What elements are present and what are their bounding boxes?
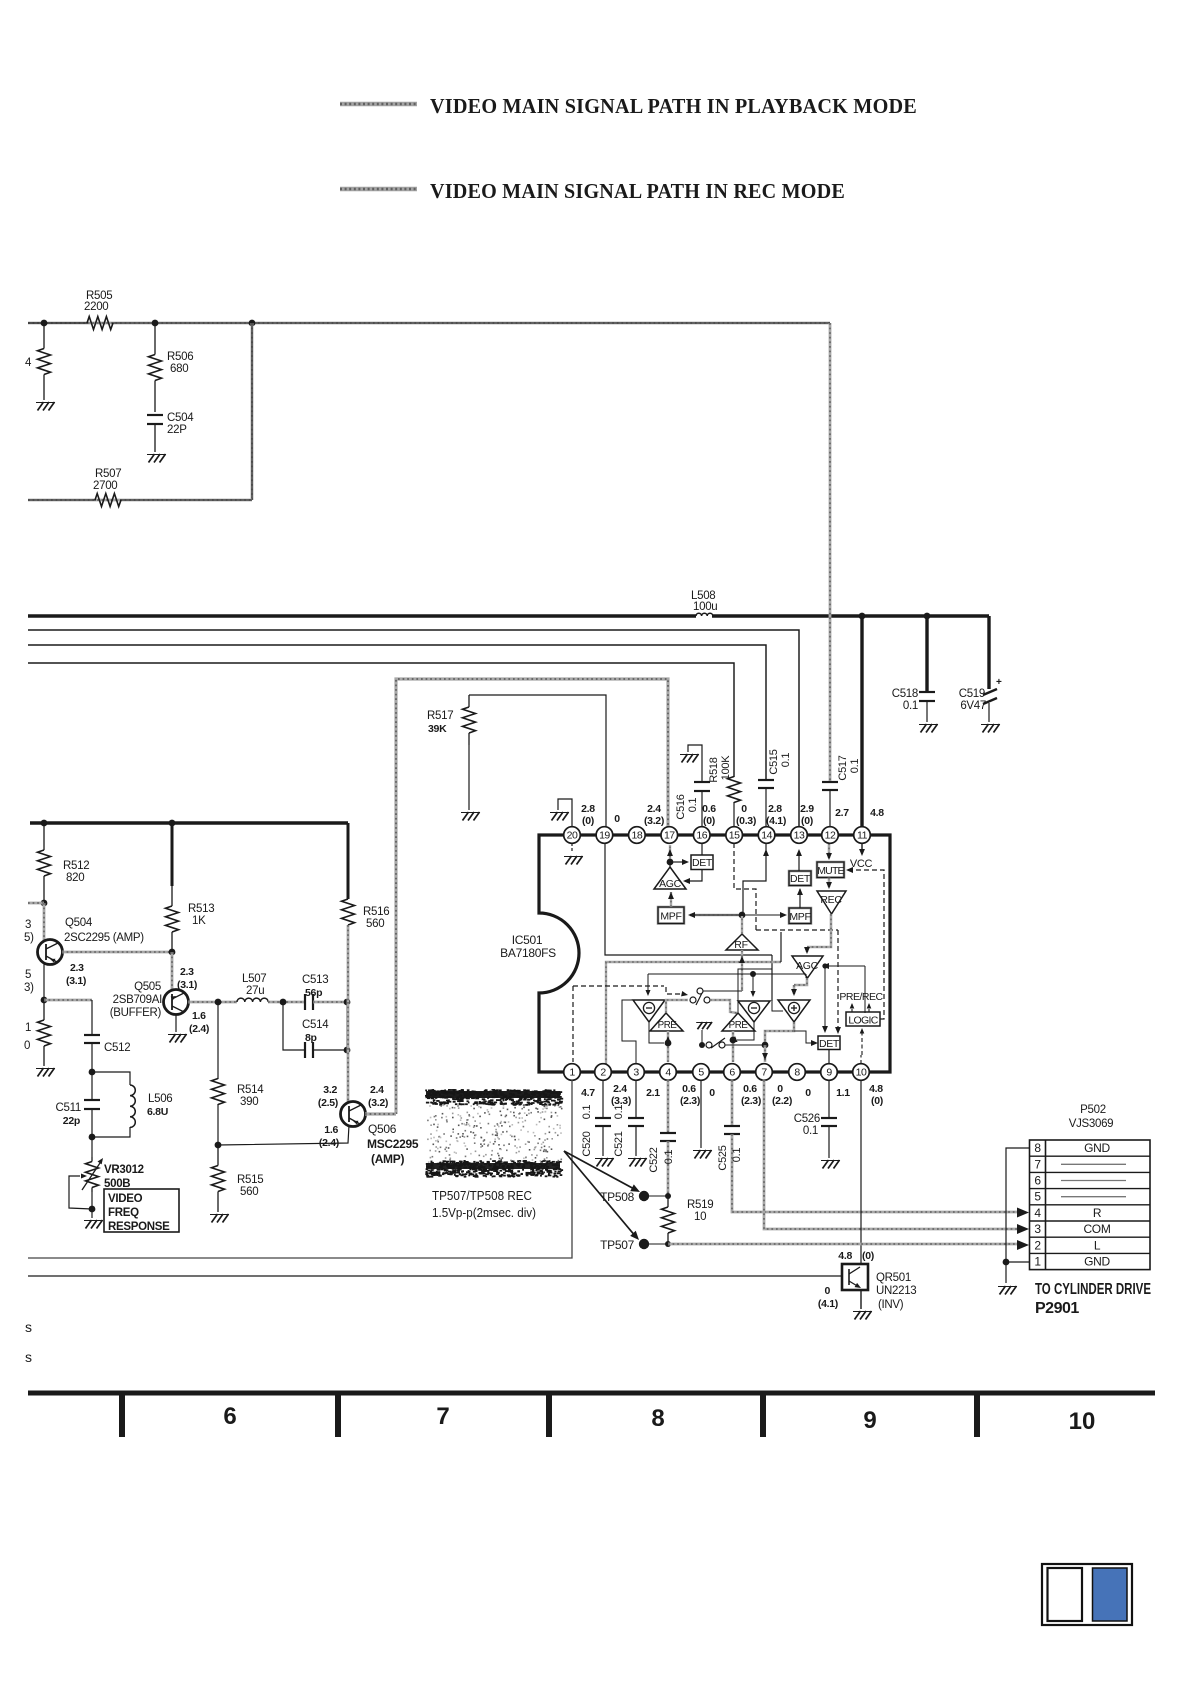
node dot Q504 base <box>41 900 48 907</box>
svg-text:C517: C517 <box>837 755 849 780</box>
wire adder out to pin7 and DET3 <box>765 1022 794 1045</box>
wire Q506 collector to REC path gray <box>365 1112 396 1115</box>
wire Q504 collector to R513 gray <box>62 951 172 954</box>
svg-text:REC: REC <box>820 894 842 906</box>
wire pin4 to PRE1 <box>667 1031 670 1062</box>
wire R514 to junction <box>217 1104 219 1145</box>
wire L507 to C513 gray <box>268 1001 305 1004</box>
node dot VR bottom <box>89 1206 96 1213</box>
svg-text:2700: 2700 <box>93 480 117 492</box>
svg-text:14: 14 <box>761 830 772 842</box>
wire gray drop x830 <box>829 323 832 782</box>
ground C521 <box>630 1158 636 1167</box>
summing amp plus <box>778 1000 810 1022</box>
svg-text:0.1: 0.1 <box>731 1148 743 1163</box>
svg-text:L507: L507 <box>242 973 266 985</box>
svg-text:(3.1): (3.1) <box>66 975 86 987</box>
svg-text:8: 8 <box>1034 1141 1041 1155</box>
svg-text:0: 0 <box>805 1087 811 1099</box>
svg-text:RF: RF <box>734 939 747 951</box>
svg-text:0.6: 0.6 <box>743 1083 757 1095</box>
svg-text:0.1: 0.1 <box>687 798 699 813</box>
svg-text:0.6: 0.6 <box>702 803 716 815</box>
svg-text:R507: R507 <box>95 468 121 480</box>
capacitor C515 <box>758 779 774 781</box>
svg-text:0: 0 <box>614 813 620 825</box>
ground C518 <box>921 724 927 733</box>
block LOGIC <box>846 1012 880 1026</box>
svg-text:2.1: 2.1 <box>646 1087 660 1099</box>
svg-text:L506: L506 <box>148 1093 172 1105</box>
box VIDEO FREQ RESPONSE <box>104 1189 179 1232</box>
node dot RF out <box>739 912 746 919</box>
wire REC path gray from Q506 to pin17 <box>396 679 668 1114</box>
svg-text:4: 4 <box>25 357 32 369</box>
svg-text:IC501: IC501 <box>512 933 543 947</box>
svg-text:0.1: 0.1 <box>780 753 792 768</box>
wire emitter to C512 gray <box>44 999 92 1002</box>
svg-text:TP507: TP507 <box>600 1238 634 1252</box>
node dot L507 left <box>215 999 222 1006</box>
ground C520 <box>597 1158 603 1167</box>
svg-text:9: 9 <box>863 1407 876 1434</box>
dashed VCC to MUTE and logic rail <box>848 870 884 1019</box>
wire bus y663 to R518 <box>28 663 734 777</box>
wire VCC drop to pin11 <box>860 616 863 827</box>
dashed arrows logic to PRE/REC <box>851 1004 853 1012</box>
svg-text:TO CYLINDER DRIVE: TO CYLINDER DRIVE <box>1035 1281 1151 1298</box>
wire MUTE to REC <box>828 878 831 888</box>
dashed pin15 path <box>734 843 756 930</box>
amplifier PRE2 <box>722 1013 755 1031</box>
ground P502 <box>1000 1286 1006 1295</box>
capacitor C504 <box>147 414 163 416</box>
block DET2 <box>789 871 811 886</box>
svg-text:+: + <box>996 677 1002 688</box>
wire RF input <box>741 950 743 989</box>
svg-text:0.6: 0.6 <box>682 1083 696 1095</box>
svg-text:(2.5): (2.5) <box>318 1097 338 1109</box>
svg-text:P2901: P2901 <box>1035 1300 1079 1317</box>
svg-text:18: 18 <box>632 830 643 842</box>
svg-text:GND: GND <box>1084 1255 1110 1269</box>
wire base drop gray <box>43 903 46 941</box>
svg-text:3: 3 <box>633 1067 639 1079</box>
svg-text:C521: C521 <box>613 1131 625 1156</box>
node dot R514 bottom <box>215 1142 222 1149</box>
svg-text:RESPONSE: RESPONSE <box>108 1221 170 1233</box>
svg-text:C516: C516 <box>675 794 687 819</box>
wire pin14 internal <box>743 852 766 913</box>
svg-text:6: 6 <box>223 1403 236 1430</box>
svg-text:R515: R515 <box>237 1174 263 1186</box>
wire DET2 to pin13 <box>798 852 800 871</box>
wire main bus thick y616 <box>28 614 696 617</box>
node dot C512 bottom <box>89 1069 96 1076</box>
capacitor C511 <box>91 1072 93 1100</box>
svg-text:1K: 1K <box>192 915 206 927</box>
wire pin5 ground <box>700 1080 702 1148</box>
svg-text:VIDEO: VIDEO <box>108 1193 143 1205</box>
block MPF1 <box>658 907 684 924</box>
variable resistor VR3012 <box>91 1137 93 1157</box>
svg-text:6: 6 <box>729 1067 735 1079</box>
svg-text:VIDEO MAIN SIGNAL PATH IN PLAY: VIDEO MAIN SIGNAL PATH IN PLAYBACK MODE <box>430 94 917 118</box>
svg-text:1.6: 1.6 <box>324 1124 338 1136</box>
svg-text:680: 680 <box>170 363 188 375</box>
svg-text:(2.2): (2.2) <box>772 1095 792 1107</box>
wire thick bus y823 <box>30 821 348 824</box>
svg-text:1.5Vp-p(2msec. div): 1.5Vp-p(2msec. div) <box>432 1206 536 1220</box>
svg-text:13: 13 <box>794 830 805 842</box>
svg-text:3.2: 3.2 <box>323 1084 337 1096</box>
svg-text:DET: DET <box>819 1038 840 1050</box>
wire Q504 emitter down <box>43 963 45 1000</box>
svg-text:BA7180FS: BA7180FS <box>500 946 556 960</box>
op-amp IC501 body outline <box>539 835 890 1072</box>
resistor R506 <box>154 323 156 355</box>
amplifier AGC1 <box>654 867 686 889</box>
capacitor C526 on pin9 <box>828 1080 830 1118</box>
inductor L508 <box>696 613 713 616</box>
svg-text:2.3: 2.3 <box>70 962 84 974</box>
svg-text:4.8: 4.8 <box>869 1083 883 1095</box>
ground C519 <box>983 724 989 733</box>
capacitor C520 <box>602 1080 604 1118</box>
wire Q506 emitter to R514 node <box>218 1125 349 1145</box>
node dot minus2 feed <box>750 971 756 977</box>
svg-text:(3.2): (3.2) <box>644 815 664 827</box>
waveform photo REC <box>426 1091 560 1098</box>
svg-text:15: 15 <box>729 830 740 842</box>
svg-text:(0): (0) <box>801 815 813 827</box>
svg-text:(0): (0) <box>862 1250 874 1262</box>
svg-text:1: 1 <box>569 1067 575 1079</box>
svg-text:39K: 39K <box>428 723 447 735</box>
ground R-partial <box>38 1068 44 1077</box>
svg-text:7: 7 <box>1034 1157 1041 1171</box>
svg-text:0.1: 0.1 <box>903 700 918 712</box>
svg-text:DET: DET <box>692 857 713 869</box>
svg-text:(0.3): (0.3) <box>736 815 756 827</box>
svg-text:LOGIC: LOGIC <box>848 1015 878 1027</box>
svg-text:16: 16 <box>696 830 707 842</box>
wire PRE1 out to switch <box>666 1000 688 1013</box>
wire PRE2 out riser to adder <box>738 969 783 1013</box>
svg-text:UN2213: UN2213 <box>876 1285 916 1297</box>
capacitor C512 <box>84 1034 100 1036</box>
wire pin17 to AGC1 <box>669 845 671 862</box>
wiper link <box>81 1173 87 1178</box>
wire pin6 to PRE2 <box>732 1031 735 1062</box>
svg-text:0.1: 0.1 <box>581 1105 593 1120</box>
wire REC to AGC2 <box>807 914 831 947</box>
svg-text:8p: 8p <box>305 1032 317 1044</box>
wire top signal line y323 <box>28 322 830 325</box>
capacitor C521 <box>635 1080 637 1118</box>
svg-text:Q506: Q506 <box>368 1122 397 1136</box>
svg-text:MPF: MPF <box>660 911 681 923</box>
svg-text:2.4: 2.4 <box>647 803 661 815</box>
svg-text:0.1: 0.1 <box>803 1125 818 1137</box>
svg-text:2.3: 2.3 <box>180 966 194 978</box>
svg-text:(INV): (INV) <box>878 1299 904 1311</box>
dashed drop to DET3 <box>837 930 839 1030</box>
wire vertical x252 <box>251 323 254 500</box>
svg-text:6V47: 6V47 <box>960 700 986 712</box>
amplifier PRE1 <box>650 1013 683 1031</box>
wire Q505 out gray <box>188 1001 237 1004</box>
resistor R-left partial <box>43 323 45 349</box>
svg-text:2SB709AI: 2SB709AI <box>113 994 162 1006</box>
ground R515 <box>212 1214 218 1223</box>
block DET3 <box>818 1036 840 1050</box>
svg-text:s: s <box>25 1319 32 1335</box>
resistor R519 <box>667 1196 669 1207</box>
svg-text:AGC: AGC <box>659 878 682 890</box>
svg-text:17: 17 <box>664 830 675 842</box>
svg-text:390: 390 <box>240 1096 258 1108</box>
node dot junction x252 <box>249 320 256 327</box>
svg-text:R506: R506 <box>167 351 193 363</box>
ground C504 <box>149 454 155 463</box>
block DET1 <box>670 861 684 863</box>
node dot R506 top <box>152 320 159 327</box>
svg-text:0.1: 0.1 <box>849 759 861 774</box>
wire AGC2 to adder <box>794 978 807 985</box>
resistor R515 <box>217 1145 219 1166</box>
node dot R513 top <box>169 820 176 827</box>
wire pin10 drop to QR501 <box>860 1080 862 1264</box>
node dot pin4 <box>665 1040 672 1047</box>
attenuator minus-1 <box>633 1000 665 1022</box>
wire RF to MPF1 and MPF2 <box>690 914 742 916</box>
switch S1 contacts <box>690 997 696 1003</box>
wire C513 right gray <box>313 1001 348 1004</box>
switch S2 with ground <box>697 1022 702 1029</box>
legend playback-mode hatched line <box>340 102 417 107</box>
svg-text:TP507/TP508 REC: TP507/TP508 REC <box>432 1189 532 1203</box>
ground C526 <box>823 1160 829 1169</box>
svg-text:QR501: QR501 <box>876 1272 911 1284</box>
svg-text:2SC2295 (AMP): 2SC2295 (AMP) <box>64 932 144 944</box>
wire gray internal y962 to pin2 <box>606 962 781 1064</box>
svg-text:5: 5 <box>1034 1190 1041 1204</box>
svg-text:C504: C504 <box>167 412 194 424</box>
resistor R512 <box>43 823 45 850</box>
svg-text:C522: C522 <box>648 1147 660 1172</box>
svg-text:C514: C514 <box>302 1019 329 1031</box>
svg-text:(0): (0) <box>582 815 594 827</box>
svg-text:5: 5 <box>698 1067 704 1079</box>
svg-text:C520: C520 <box>581 1131 593 1156</box>
svg-text:0: 0 <box>741 803 747 815</box>
connector P502 table <box>1030 1140 1151 1270</box>
svg-text:3): 3) <box>24 982 34 994</box>
wire pin3 internal <box>622 1000 636 1064</box>
svg-text:PRE: PRE <box>658 1020 678 1031</box>
legend rec-mode hatched line <box>340 187 417 192</box>
svg-text:1.6: 1.6 <box>192 1010 206 1022</box>
svg-text:5: 5 <box>25 969 31 981</box>
wire pin12 to MUTE <box>828 843 831 858</box>
svg-text:R518: R518 <box>708 757 720 782</box>
svg-text:C511: C511 <box>56 1102 81 1114</box>
svg-text:VR3012: VR3012 <box>104 1164 144 1176</box>
wire long line to QR501 <box>28 1275 842 1277</box>
svg-text:11: 11 <box>857 830 868 842</box>
svg-text:Q505: Q505 <box>134 981 161 993</box>
ground R517 <box>463 812 469 821</box>
svg-text:1.1: 1.1 <box>836 1087 850 1099</box>
wire R516 to C513 node gray <box>347 925 350 1002</box>
node dot pin6 <box>730 1037 737 1044</box>
node dot pin17 junction <box>667 859 674 866</box>
svg-text:PRE: PRE <box>729 1020 749 1031</box>
inductor L506 <box>92 1072 130 1085</box>
svg-text:(2.3): (2.3) <box>680 1095 700 1107</box>
wire pin7 to COM <box>764 1080 1017 1229</box>
resistor R513 <box>171 823 174 886</box>
svg-text:s: s <box>25 1349 32 1365</box>
wire R507 line y500 <box>28 499 252 502</box>
wire down to Q506 gray <box>347 1002 350 1102</box>
svg-text:AGC: AGC <box>796 960 819 972</box>
svg-text:56p: 56p <box>305 987 322 999</box>
dashed pin10 to LOGIC <box>861 1029 863 1055</box>
svg-text:6: 6 <box>1034 1174 1041 1188</box>
svg-text:0.1: 0.1 <box>613 1105 625 1120</box>
IC501 top pins 20-11 <box>564 827 581 844</box>
svg-text:2.9: 2.9 <box>800 803 814 815</box>
capacitor C513 <box>304 994 306 1010</box>
node dot C518 branch <box>924 613 931 620</box>
svg-text:MPF: MPF <box>789 911 810 923</box>
svg-text:2.4: 2.4 <box>370 1084 384 1096</box>
node dot VCC branch <box>859 613 866 620</box>
resistor R507 <box>95 494 121 507</box>
svg-text:(2.3): (2.3) <box>741 1095 761 1107</box>
logo two squares <box>1042 1564 1132 1625</box>
ground left resistor <box>38 402 44 411</box>
svg-text:2: 2 <box>1034 1238 1041 1252</box>
svg-text:C513: C513 <box>302 974 328 986</box>
svg-text:0: 0 <box>709 1087 715 1099</box>
wire DET3 to pin9 <box>828 1050 830 1065</box>
node dot C513 left <box>280 999 287 1006</box>
svg-text:0: 0 <box>824 1285 830 1297</box>
svg-text:100K: 100K <box>720 755 732 780</box>
svg-text:PRE/REC: PRE/REC <box>839 991 883 1003</box>
svg-text:4.8: 4.8 <box>838 1250 852 1262</box>
dashed control box left <box>572 986 574 1062</box>
svg-text:L: L <box>1094 1238 1101 1252</box>
wire corner to C519 <box>987 616 990 689</box>
svg-text:2.8: 2.8 <box>581 803 595 815</box>
svg-text:VIDEO MAIN SIGNAL PATH IN REC: VIDEO MAIN SIGNAL PATH IN REC MODE <box>430 179 845 203</box>
svg-text:Q504: Q504 <box>65 917 93 929</box>
transistor Q504 <box>38 940 63 965</box>
svg-text:7: 7 <box>761 1067 767 1079</box>
capacitor C517 <box>822 781 838 783</box>
svg-text:22P: 22P <box>167 424 187 436</box>
wire AGC2 control <box>824 965 865 967</box>
attenuator minus-2 <box>738 1001 770 1022</box>
svg-text:(4.1): (4.1) <box>766 815 786 827</box>
amplifier REC <box>817 891 846 914</box>
node dot L506 bottom <box>89 1134 96 1141</box>
svg-text:(BUFFER): (BUFFER) <box>110 1007 162 1019</box>
svg-text:6.8U: 6.8U <box>147 1106 168 1118</box>
svg-text:(3.2): (3.2) <box>368 1097 388 1109</box>
svg-text:P502: P502 <box>1080 1104 1106 1116</box>
wire minus2 link <box>737 1022 754 1040</box>
capacitor C514 parallel loop <box>283 1002 305 1050</box>
svg-text:C519: C519 <box>959 688 985 700</box>
node dot left <box>41 320 48 327</box>
arrow to TP507 <box>564 1151 636 1237</box>
capacitor C519 electrolytic <box>983 689 997 695</box>
wire feedback line y974 <box>648 973 806 975</box>
wire TP507 to connector L <box>668 1243 1017 1246</box>
svg-text:VJS3069: VJS3069 <box>1069 1118 1114 1130</box>
svg-text:9: 9 <box>826 1067 832 1079</box>
svg-text:R514: R514 <box>237 1084 264 1096</box>
resistor R505 <box>87 317 113 330</box>
ground Q505 emitter <box>175 1014 177 1032</box>
svg-text:4: 4 <box>665 1067 671 1079</box>
svg-text:VCC: VCC <box>850 858 873 870</box>
svg-text:0: 0 <box>777 1083 783 1095</box>
svg-text:12: 12 <box>825 830 836 842</box>
svg-text:10: 10 <box>1069 1408 1096 1435</box>
wire stub left gray <box>28 902 44 905</box>
svg-text:MUTE: MUTE <box>817 865 844 877</box>
svg-text:2.8: 2.8 <box>768 803 782 815</box>
svg-text:C525: C525 <box>717 1145 729 1170</box>
svg-text:C518: C518 <box>892 688 918 700</box>
wire C518 drop <box>925 616 928 692</box>
wire R517 top link to pin19 <box>469 695 606 827</box>
amplifier RF <box>726 934 758 950</box>
ruler bar <box>28 1391 1155 1396</box>
ground VR3012 <box>86 1220 92 1229</box>
amplifier AGC2 <box>792 956 823 978</box>
svg-text:3: 3 <box>25 919 31 931</box>
svg-text:2.7: 2.7 <box>835 807 849 819</box>
resistor R517 <box>468 695 470 707</box>
svg-text:10: 10 <box>856 1067 867 1079</box>
svg-text:22p: 22p <box>63 1115 80 1127</box>
svg-text:500B: 500B <box>104 1178 130 1190</box>
svg-text:7: 7 <box>436 1403 449 1430</box>
transistor Q505 <box>164 990 189 1015</box>
svg-text:FREQ: FREQ <box>108 1207 139 1219</box>
wire GND row8 to row1 and ground <box>1006 1148 1030 1283</box>
ground QR501 <box>855 1311 861 1320</box>
svg-text:2.4: 2.4 <box>613 1083 627 1095</box>
svg-text:560: 560 <box>366 918 384 930</box>
svg-text:R513: R513 <box>188 903 214 915</box>
inductor L507 <box>237 998 268 1002</box>
svg-text:TP508: TP508 <box>600 1190 634 1204</box>
svg-text:0.1: 0.1 <box>663 1150 675 1165</box>
wire MPF2 to DET2 <box>799 889 801 908</box>
resistor R514 <box>217 1002 219 1079</box>
svg-text:4.7: 4.7 <box>581 1087 595 1099</box>
svg-text:DET: DET <box>790 873 811 885</box>
capacitor C518 <box>919 691 935 693</box>
